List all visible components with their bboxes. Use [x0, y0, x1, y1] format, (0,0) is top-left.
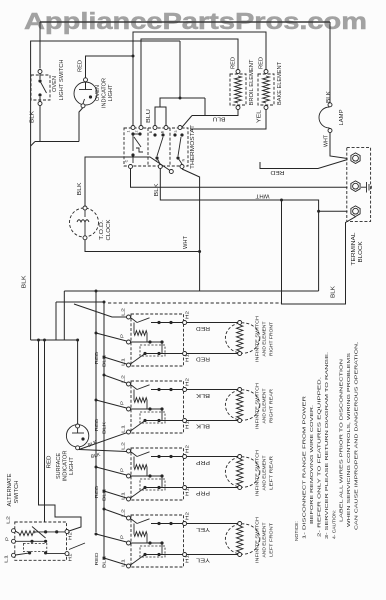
svg-text:LIGHT: LIGHT — [108, 84, 114, 102]
wire alternate switch feed A — [39, 340, 82, 532]
surface indicator light DS3 — [66, 425, 88, 447]
svg-text:PRP: PRP — [195, 490, 210, 496]
svg-text:AND ELEMENT: AND ELEMENT — [262, 522, 268, 557]
wire clock to WHT riser — [85, 240, 200, 252]
wire lamp feed BLK — [329, 22, 331, 103]
wire lamp WHT to terminal block — [330, 133, 348, 159]
svg-text:RED: RED — [196, 325, 210, 331]
wire indicator to bus B — [86, 56, 134, 78]
svg-text:L1: L1 — [4, 555, 10, 563]
svg-text:INFINITE SWITCH: INFINITE SWITCH — [255, 449, 261, 496]
svg-text:H1: H1 — [185, 421, 191, 429]
svg-text:BLK: BLK — [102, 421, 108, 434]
wire clock top connector — [85, 157, 170, 210]
svg-text:INDICATOR: INDICATOR — [63, 450, 69, 481]
svg-text:H2: H2 — [185, 445, 191, 453]
wire surface light BLK diagonals — [79, 433, 127, 450]
svg-text:2- REFER ONLY TO FEATURES EQUI: 2- REFER ONLY TO FEATURES EQUIPPED. — [316, 377, 322, 537]
wires element E4 — [187, 523, 240, 525]
svg-text:BROIL ELEMENT: BROIL ELEMENT — [249, 59, 255, 106]
infinite switch SW2 right rear — [131, 381, 184, 433]
svg-text:OVEN: OVEN — [95, 85, 101, 101]
svg-text:L1: L1 — [121, 559, 127, 567]
svg-text:WHT: WHT — [183, 235, 189, 249]
svg-text:P: P — [120, 334, 126, 338]
wire bus C to broil element and thermostat T2 — [141, 39, 238, 128]
svg-text:1: 1 — [127, 131, 131, 133]
svg-text:INDICATOR: INDICATOR — [102, 78, 108, 108]
svg-text:BEFORE REMOVING WIRE COVER.: BEFORE REMOVING WIRE COVER. — [309, 405, 315, 524]
svg-text:RED: RED — [94, 552, 100, 566]
svg-text:L2: L2 — [6, 516, 12, 524]
svg-text:TERMINAL: TERMINAL — [351, 233, 357, 266]
svg-text:BLK: BLK — [22, 275, 28, 288]
terminal block lug 2 — [351, 181, 360, 192]
svg-text:BLK: BLK — [154, 183, 160, 196]
wire alternate switch feed B — [44, 340, 46, 522]
svg-text:H2: H2 — [185, 378, 191, 386]
svg-text:3: 3 — [174, 131, 178, 133]
svg-text:RED: RED — [78, 60, 84, 72]
svg-text:SURFACE: SURFACE — [56, 452, 62, 479]
svg-text:RED: RED — [47, 455, 53, 468]
wires element E3 — [187, 456, 240, 458]
svg-text:2: 2 — [135, 131, 139, 133]
wire node junction BLK — [35, 141, 79, 143]
svg-text:BLU: BLU — [212, 116, 225, 122]
svg-text:CLOCK: CLOCK — [106, 219, 112, 241]
wire terminal block BLK return — [282, 200, 356, 304]
svg-text:LIGHT: LIGHT — [69, 456, 75, 475]
svg-text:3- SERVICER PLEASE RETURN DIAG: 3- SERVICER PLEASE RETURN DIAGRAM TO RAN… — [324, 352, 330, 539]
svg-text:H2: H2 — [185, 311, 191, 319]
svg-text:BLK: BLK — [326, 91, 332, 103]
svg-text:H1: H1 — [68, 553, 74, 561]
wire YEL from bake element — [190, 110, 266, 130]
wire thermostat T3 T4 hat — [155, 107, 166, 128]
svg-text:LIGHT SWITCH: LIGHT SWITCH — [59, 59, 65, 100]
svg-text:BLK: BLK — [102, 555, 108, 568]
wire L2 feed bus — [95, 291, 97, 532]
wires element E2 — [187, 389, 240, 391]
svg-text:YEL: YEL — [196, 557, 210, 563]
svg-text:RIGHT REAR: RIGHT REAR — [269, 388, 275, 423]
wire surface light feed — [77, 340, 79, 424]
svg-text:YEL: YEL — [257, 110, 263, 123]
wire RED to terminal block — [260, 160, 348, 169]
svg-text:RED: RED — [94, 418, 100, 432]
svg-text:H1: H1 — [185, 354, 191, 362]
infinite switch SW3 left rear — [131, 448, 184, 500]
feed diagonals SW1 — [74, 304, 127, 317]
svg-text:BLK: BLK — [195, 423, 210, 429]
svg-text:T.O.D.: T.O.D. — [99, 220, 105, 240]
broil element R1 — [230, 74, 246, 105]
wire oven light switch to node — [39, 106, 41, 142]
svg-text:ALTERNATE: ALTERNATE — [7, 473, 13, 506]
svg-text:SWITCH: SWITCH — [14, 480, 20, 503]
svg-text:H1: H1 — [185, 555, 191, 563]
node T5 riser junction — [179, 97, 182, 100]
svg-text:L1: L1 — [121, 358, 127, 366]
svg-text:CAN CAUSE IMPROPER AND DANGERO: CAN CAUSE IMPROPER AND DANGEROUS OPERATI… — [354, 342, 360, 530]
thermostat S2 — [124, 128, 188, 166]
svg-text:BLU: BLU — [146, 109, 152, 123]
feed diagonals SW2 — [104, 375, 127, 383]
svg-text:BLOCK: BLOCK — [358, 241, 364, 262]
bake element R2 — [258, 74, 274, 105]
svg-text:BLK: BLK — [195, 392, 210, 398]
svg-text:P: P — [120, 535, 126, 539]
svg-text:P: P — [120, 401, 126, 405]
terminal block lug 1 — [351, 153, 360, 164]
wire bottom bus — [31, 339, 78, 341]
svg-text:RED: RED — [231, 57, 237, 69]
svg-text:RIGHT FRONT: RIGHT FRONT — [269, 322, 275, 356]
svg-text:L2: L2 — [121, 442, 127, 450]
svg-text:1- DISCONNECT RANGE FROM POWER: 1- DISCONNECT RANGE FROM POWER — [301, 395, 307, 539]
svg-text:N: N — [182, 158, 186, 161]
surface element E2 — [225, 390, 259, 420]
T.O.D. clock M1 — [70, 208, 99, 237]
node indicator tap — [132, 55, 135, 58]
wire WHT thermostat to terminal block T2 — [131, 169, 348, 187]
svg-text:L1: L1 — [121, 492, 127, 500]
svg-text:H2: H2 — [68, 532, 74, 540]
svg-text:BLK: BLK — [102, 354, 108, 367]
svg-text:RED: RED — [259, 57, 265, 69]
svg-text:INFINITE SWITCH: INFINITE SWITCH — [255, 315, 261, 362]
wire bus B to bake element and thermostat T1 — [133, 32, 266, 128]
infinite switch SW4 left front — [131, 515, 184, 567]
wire left BLK bus L2 — [31, 41, 180, 340]
svg-text:AND ELEMENT: AND ELEMENT — [262, 388, 268, 423]
svg-text:L2: L2 — [121, 308, 127, 316]
svg-text:AND ELEMENT: AND ELEMENT — [262, 321, 268, 356]
wire L1 top bus — [40, 21, 330, 23]
alternate switch SW5 — [15, 522, 67, 560]
svg-text:L1: L1 — [121, 425, 127, 433]
oven lamp DS2 — [319, 107, 330, 128]
wire BLK bus horizontal — [64, 290, 318, 292]
ground — [361, 186, 366, 188]
wire thermostat N riser — [182, 169, 200, 291]
svg-text:WHT: WHT — [324, 134, 330, 147]
wire thermostat T5 riser — [179, 41, 181, 98]
feed diagonals SW4 — [104, 509, 127, 517]
svg-text:P: P — [120, 468, 126, 472]
svg-text:C: C — [125, 159, 129, 162]
svg-text:OVEN: OVEN — [52, 76, 58, 92]
wire BLU to broil element — [192, 98, 205, 116]
svg-text:YEL: YEL — [196, 526, 210, 532]
oven indicator light DS1 — [74, 82, 97, 105]
svg-text:4- CAUTION:: 4- CAUTION: — [331, 510, 337, 539]
svg-text:LAMP: LAMP — [339, 109, 345, 125]
svg-text:RED: RED — [94, 485, 100, 499]
svg-text:BLK: BLK — [102, 488, 108, 501]
feed diagonals SW3 — [96, 467, 127, 475]
wire oven light switch feed — [39, 22, 41, 69]
svg-text:P: P — [5, 537, 11, 541]
wire indicator light return — [79, 108, 83, 142]
svg-text:LABEL ALL WIRES PRIOR TO DISCO: LABEL ALL WIRES PRIOR TO DISCONNECTION — [339, 358, 345, 522]
svg-text:RED: RED — [196, 356, 210, 362]
svg-text:LEFT REAR: LEFT REAR — [269, 455, 275, 490]
surface element E3 — [225, 457, 259, 487]
terminal block lug 3 — [351, 206, 360, 217]
wires element E1 — [187, 322, 240, 324]
surface element E4 — [225, 524, 259, 554]
blade H1 alternate switch — [69, 543, 85, 550]
terminal block TB1 — [347, 148, 371, 222]
svg-text:INFINITE SWITCH: INFINITE SWITCH — [255, 516, 261, 563]
svg-text:WHT: WHT — [255, 192, 270, 198]
svg-text:AND ELEMENT: AND ELEMENT — [262, 455, 268, 490]
infinite switch SW1 right front — [131, 314, 184, 366]
wire L1 feed bus — [103, 302, 105, 557]
surface element E1 — [225, 323, 259, 353]
oven light switch S1 — [31, 75, 50, 100]
svg-text:AppliancePartsPros.com: AppliancePartsPros.com — [24, 8, 367, 34]
svg-text:THERMOSTAT: THERMOSTAT — [190, 124, 196, 169]
svg-text:WHEN SERVICING CONTROLS, WIRIN: WHEN SERVICING CONTROLS, WIRING PROBLEMS — [346, 352, 352, 527]
svg-text:H1: H1 — [185, 488, 191, 496]
svg-text:BLK: BLK — [77, 182, 83, 195]
wire L1 branch — [56, 301, 104, 303]
svg-text:H2: H2 — [185, 512, 191, 520]
dashed maintop panel line — [108, 302, 282, 304]
svg-text:BLK: BLK — [331, 286, 337, 298]
wire thermostat common to terminal block T3 — [160, 169, 318, 291]
svg-text:NOTICE:: NOTICE: — [294, 521, 300, 541]
svg-text:INFINITE SWITCH: INFINITE SWITCH — [255, 382, 261, 429]
svg-text:LEFT FRONT: LEFT FRONT — [269, 523, 275, 557]
svg-text:RED: RED — [94, 351, 100, 365]
svg-text:PRP: PRP — [195, 459, 210, 465]
svg-text:RED: RED — [270, 169, 284, 175]
svg-text:BAKE ELEMENT: BAKE ELEMENT — [277, 61, 283, 105]
